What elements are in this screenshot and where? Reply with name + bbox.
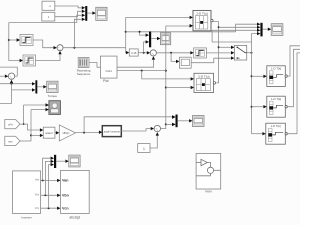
- wire branch down to block C: [171, 53, 176, 62]
- wire repeating sequence to sum5: [89, 59, 154, 67]
- svg-text:1-D T[k]: 1-D T[k]: [271, 66, 281, 70]
- wire L1 output down the east bus: [213, 22, 219, 83]
- wire to switch input 1: [219, 46, 232, 48]
- junction plot wire: [141, 70, 143, 72]
- junction theta to L2: [165, 87, 167, 89]
- sum junction SUM1: [57, 45, 63, 52]
- wire left vertical net: [9, 23, 77, 61]
- wire up to mux M5 input 1: [236, 24, 257, 32]
- wire bus to mux M5 input 3: [212, 30, 257, 42]
- junction gain output: [83, 132, 85, 134]
- junction theta to M4: [165, 123, 167, 125]
- rate limiter block A: [20, 35, 33, 46]
- 1-D lookup table L3c: [266, 123, 288, 144]
- wire K1 to M1: [55, 6, 82, 8]
- wire long feedback to mux M4 input 1: [84, 117, 172, 133]
- svg-text:180/pi: 180/pi: [62, 131, 69, 135]
- saturation block D: [194, 48, 207, 58]
- wire down exiting west: [0, 90, 12, 104]
- wire to 1-D lookup b: [252, 106, 264, 108]
- wire Vcn up to mux M6: [49, 165, 51, 209]
- scope Torque: [47, 81, 58, 92]
- mux M3: [35, 80, 37, 93]
- 1-D lookup table L3a: [267, 66, 288, 87]
- repeating sequence source: [78, 58, 89, 68]
- sum junction SUM6: [154, 125, 160, 132]
- wire L3a output to east edge: [287, 46, 301, 76]
- svg-text:Van: Van: [62, 178, 68, 182]
- svg-text:Vbn: Vbn: [35, 194, 40, 197]
- wire K2 to M1: [55, 11, 82, 16]
- junction sum1 out to M1: [73, 47, 75, 49]
- wire to 1-D lookup a: [252, 75, 264, 77]
- wire up to M1 input 4: [74, 19, 82, 47]
- junction sum5 out: [170, 52, 172, 54]
- wire M2 to scope S3: [151, 38, 157, 40]
- wire tag A up to xy graph: [23, 105, 25, 124]
- abc2qd block: [61, 170, 90, 213]
- junction Vcn tap: [48, 207, 50, 209]
- wire mux M1 to scope S1: [87, 12, 92, 14]
- rate limiter block B: [23, 55, 36, 66]
- wire into sum2 from west: [0, 75, 5, 77]
- constant block K1: [42, 1, 55, 10]
- svg-text:0.48: 0.48: [131, 51, 137, 55]
- wire horizontal y42: [212, 41, 251, 43]
- 1-D lookup table L3b: [267, 96, 288, 117]
- svg-text:Van: Van: [35, 178, 40, 181]
- gain block 0.48: [129, 49, 138, 56]
- mux M5: [260, 23, 262, 37]
- svg-text:wm: wm: [8, 139, 13, 143]
- sum junction SUM2: [8, 73, 14, 80]
- wire theta to mux M4 input 2: [166, 123, 172, 125]
- svg-text:Vcn: Vcn: [35, 207, 40, 210]
- mux M1 input 3 arrow: [82, 14, 85, 17]
- svg-text:1-D T[k]: 1-D T[k]: [270, 124, 280, 128]
- gain block 180/pi: [59, 125, 75, 141]
- wire tag B up to xy graph: [30, 110, 32, 141]
- wire plot to theta net: [117, 70, 166, 72]
- wire Vcn: [41, 207, 58, 209]
- xy graph block: [49, 101, 61, 115]
- wire to mux M5 input 2: [219, 26, 257, 28]
- 2-D lookup table L2: [194, 73, 216, 92]
- scope S3: [160, 33, 170, 45]
- plot subsystem: [100, 56, 117, 78]
- svg-text:1-D T[k]: 1-D T[k]: [271, 97, 281, 101]
- arrow L2 input 1: [191, 77, 194, 80]
- svg-text:Vcn: Vcn: [62, 207, 69, 211]
- wire up into M1 input 3: [77, 15, 82, 22]
- junction freq net: [125, 31, 127, 33]
- mux M6: [54, 155, 56, 168]
- mux M1: [85, 6, 87, 21]
- svg-text:w*e: w*e: [8, 123, 13, 127]
- wire theta vertical north: [166, 26, 190, 129]
- wire angle forwards to sum6: [121, 129, 150, 131]
- angle forwards subsystem: [102, 126, 121, 137]
- sum junction SUM5: [150, 50, 156, 57]
- wire freq bus east: [126, 31, 236, 33]
- from tag w*e: [5, 120, 20, 129]
- svg-text:1: 1: [143, 147, 145, 151]
- switch block SW1: [234, 45, 246, 60]
- svg-text:Torque: Torque: [48, 94, 58, 98]
- mux M2: [149, 32, 151, 48]
- junction Vbn tap: [44, 194, 46, 196]
- arrow L2 input 2: [191, 86, 194, 89]
- atan2 block: [43, 127, 55, 138]
- wire sum2 output: [15, 75, 18, 77]
- scope S4b: [193, 116, 205, 127]
- junction to M5 input 2: [218, 26, 220, 28]
- svg-text:-1: -1: [48, 4, 51, 8]
- wire tag B to atan2 input 2: [31, 134, 40, 136]
- arrow into rate block B: [20, 59, 23, 62]
- wire 0.48 to sum5: [138, 52, 147, 54]
- wire Vbn: [41, 194, 58, 196]
- wire L3c output to east edge: [287, 53, 301, 134]
- junction theta to plot: [165, 70, 167, 72]
- wire branch to rate block A: [9, 39, 17, 41]
- wire up into sum2: [11, 82, 13, 84]
- scope S6: [69, 155, 80, 167]
- wire down to gain 0.48: [125, 48, 128, 53]
- constant block K2: [42, 12, 55, 21]
- svg-text:PWM: PWM: [205, 190, 212, 194]
- constant block 1: [138, 144, 150, 153]
- wire sum6 output: [161, 128, 166, 130]
- wire switch output: [247, 52, 252, 54]
- wire gain to angle forwards: [76, 132, 100, 134]
- wire branch to mux M2 input 1: [140, 32, 146, 35]
- wire M5 to scope S5: [263, 28, 268, 30]
- wire M3 to torque scope: [37, 86, 43, 88]
- junction to 1-D L3a: [251, 75, 253, 77]
- scope S1: [96, 7, 107, 20]
- junction on left net: [8, 39, 10, 41]
- wire atan2 to gain: [55, 132, 56, 134]
- scope S5: [271, 24, 283, 36]
- junction to switch input 1: [218, 46, 220, 48]
- 2-D lookup table L1: [193, 11, 213, 31]
- inverter block: [13, 171, 41, 214]
- wire vertical to 2-D lookup input: [125, 17, 127, 47]
- wire L3b output to east edge: [287, 49, 301, 106]
- wire Van: [41, 179, 58, 181]
- arrow L1 input 2: [190, 24, 193, 27]
- wire tag B east: [20, 140, 31, 142]
- from tag wm: [5, 136, 20, 145]
- svg-text:Sequence: Sequence: [77, 72, 91, 76]
- wire down to L2 input 1: [142, 71, 191, 79]
- mux M1 input 4 arrow: [82, 18, 85, 21]
- wire to 2-D T(u) L1 input 1: [126, 16, 190, 18]
- inner-rect block C: [179, 57, 191, 68]
- wire C to switch input 3: [191, 58, 231, 63]
- svg-text:Vbn: Vbn: [62, 194, 69, 198]
- wire M6 to scope S6: [56, 160, 65, 162]
- pwm generator block: [196, 154, 221, 190]
- svg-text:angle forwards: angle forwards: [104, 130, 121, 133]
- wire B to sum1 bottom: [36, 54, 61, 61]
- svg-text:atan2: atan2: [45, 131, 53, 135]
- wire M4 to scope S4b: [178, 120, 190, 122]
- wire up to mux M2 input 2: [144, 42, 146, 53]
- arrow into M5 input 4: [257, 32, 260, 35]
- mux M1 input 2 arrow: [82, 10, 85, 13]
- wire sum1 output east: [63, 47, 126, 49]
- wire angle bus vertical: [252, 34, 258, 134]
- wire to mux M3 input 2: [12, 84, 33, 90]
- junction below sum2: [11, 83, 13, 85]
- wire theta to L2 input 2: [166, 87, 191, 89]
- wire into xy graph input 1: [24, 104, 46, 106]
- svg-text:2-D T(u): 2-D T(u): [198, 74, 209, 78]
- wire tag A to atan2 input 1: [20, 124, 40, 130]
- wire Van up to mux M6: [43, 158, 51, 180]
- svg-text:Out1: Out1: [106, 69, 113, 73]
- wire A to sum1: [33, 40, 54, 48]
- svg-text:Inverter: Inverter: [21, 215, 32, 219]
- wire into xy graph input 2: [31, 109, 46, 111]
- junction tag B net: [30, 134, 32, 136]
- wire torque feedback: [0, 83, 32, 85]
- junction to 1-D L3b: [251, 106, 253, 108]
- mux M1 input 1 arrow: [82, 6, 85, 9]
- svg-text:abc2qd: abc2qd: [69, 215, 80, 219]
- junction Van tap: [42, 179, 44, 181]
- svg-text:Plot: Plot: [103, 79, 109, 83]
- wire sum5 output east: [156, 52, 190, 54]
- arrow theta into L1 input 2: [190, 24, 193, 27]
- wire D to switch input 2: [206, 52, 231, 54]
- junction to M2 input 2: [143, 52, 145, 54]
- wire to 1-D lookup c: [252, 133, 263, 135]
- svg-text:2-D T(u): 2-D T(u): [196, 12, 207, 16]
- wire sum2 loop to west: [0, 67, 17, 76]
- wire Vbn up to mux M6: [45, 161, 50, 195]
- mux M4: [176, 115, 178, 128]
- wire constant 1 to sum6 bottom: [150, 135, 157, 148]
